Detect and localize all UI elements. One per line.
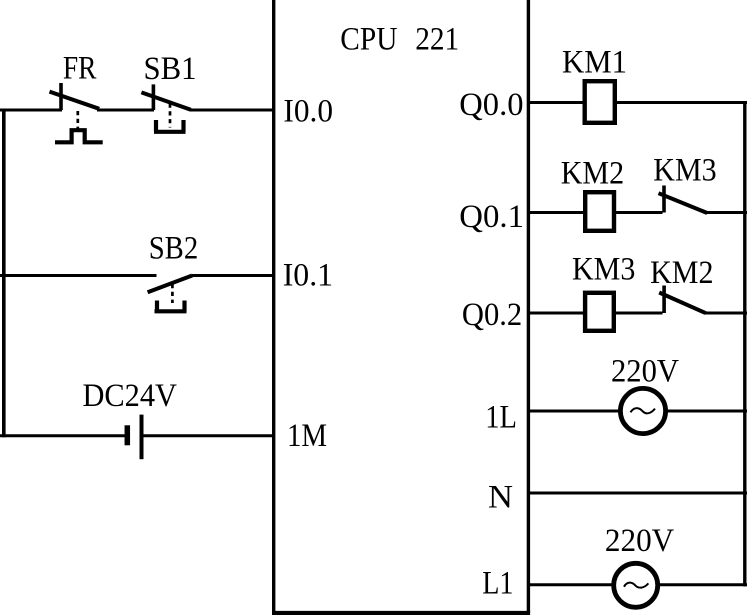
svg-text:Q0.2: Q0.2 (462, 297, 522, 333)
pushbutton SB1 dashed actuator link (169, 104, 172, 128)
wire Q0.2 row from coil to KM2 contact (615, 312, 663, 315)
pushbutton SB2 dashed actuator link (171, 284, 174, 303)
svg-text:SB1: SB1 (144, 51, 197, 87)
wire I0.1 row right segment to PLC (192, 274, 275, 277)
wire 1M row right segment to PLC (144, 434, 276, 437)
pushbutton SB2 NO blade (148, 276, 193, 293)
svg-text:KM1: KM1 (562, 45, 627, 81)
thermal relay FR heater element symbol (55, 130, 103, 142)
wire N row from PLC to right rail (528, 492, 747, 495)
svg-text:1L: 1L (485, 400, 517, 436)
PLC block U1 CPU 221 box right edge (527, 0, 530, 613)
pushbutton SB1 terminal tick (152, 84, 156, 110)
svg-text:N: N (488, 480, 513, 516)
wire L1 row from PLC to AC source (528, 583, 614, 586)
svg-text:KM3: KM3 (572, 252, 635, 288)
svg-text:SB2: SB2 (149, 231, 199, 267)
PLC block U1 CPU 221 box bottom edge (272, 611, 530, 615)
svg-text:KM2: KM2 (650, 255, 713, 291)
battery DC24V positive plate (140, 415, 144, 460)
thermal relay contact FR terminal tick (59, 83, 63, 110)
NC contact KM2 terminal tick (662, 286, 666, 314)
wire I0.1 row left segment (0, 274, 157, 277)
battery DC24V negative plate (125, 425, 131, 445)
svg-text:220V: 220V (611, 354, 679, 390)
wire Q0.1 row from coil to KM3 contact (615, 211, 663, 214)
wire I0.0 row middle segment (97, 109, 154, 112)
wire Q0.0 row from PLC to coil (528, 101, 583, 104)
AC source tilde row 1L (631, 408, 656, 413)
NC contact KM2 blade (659, 293, 705, 314)
NC contact KM3 blade (659, 193, 708, 213)
svg-text:CPU: CPU (340, 22, 397, 58)
svg-text:I0.0: I0.0 (283, 93, 333, 129)
wire Q0.1 row from contact to right rail (706, 211, 747, 214)
contactor coil KM1 (585, 81, 615, 123)
pushbutton SB1 button cap (154, 120, 186, 132)
AC source circle row L1 (614, 563, 658, 607)
AC source tilde row L1 (624, 583, 648, 588)
svg-text:DC24V: DC24V (83, 378, 178, 414)
contactor coil KM3 (585, 293, 614, 331)
wire L1 row from AC source to right rail (657, 583, 747, 586)
NC contact KM3 terminal tick (662, 186, 666, 213)
pushbutton SB2 button cap (155, 301, 187, 312)
thermal relay contact FR blade (50, 92, 100, 109)
AC source circle row 1L (620, 388, 665, 433)
svg-text:KM3: KM3 (653, 153, 716, 189)
wire 1M row left segment (0, 434, 125, 437)
svg-text:Q0.1: Q0.1 (459, 199, 524, 235)
svg-text:L1: L1 (482, 566, 513, 602)
PLC block U1 CPU 221 box left edge (272, 0, 275, 613)
left rail wire (2, 109, 6, 438)
svg-text:I0.1: I0.1 (283, 258, 333, 294)
pushbutton SB1 NC blade (141, 92, 190, 109)
wire I0.0 row left segment (0, 109, 62, 112)
wire Q0.2 row from contact to right rail (704, 312, 747, 315)
svg-text:220V: 220V (605, 523, 674, 559)
wire Q0.2 row from PLC to coil (528, 312, 584, 315)
wire Q0.0 row from coil to right rail (616, 101, 747, 104)
svg-text:Q0.0: Q0.0 (459, 87, 523, 123)
wire Q0.1 row from PLC to coil (528, 211, 584, 214)
svg-text:1M: 1M (287, 418, 327, 454)
thermal relay FR actuator dashed link (76, 111, 79, 129)
svg-text:KM2: KM2 (561, 156, 624, 192)
wire I0.0 row right segment to PLC (190, 109, 276, 112)
svg-text:FR: FR (63, 51, 97, 87)
contactor coil KM2 (585, 192, 614, 231)
wire 1L row from AC source to right rail (665, 410, 747, 413)
right rail wire (743, 101, 746, 586)
wire 1L row from PLC to AC source (528, 410, 621, 413)
svg-text:221: 221 (415, 22, 459, 58)
